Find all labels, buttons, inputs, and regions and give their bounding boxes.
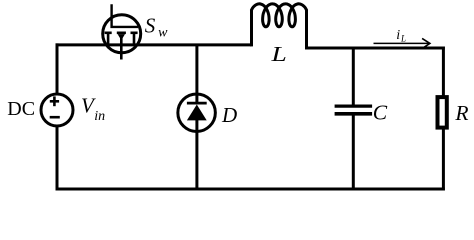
wire top-left segment [56, 43, 252, 46]
wire diode branch lower [195, 119, 198, 189]
transistor Sw right leg [133, 33, 136, 46]
svg-text:i: i [396, 28, 400, 43]
svg-text:DC: DC [7, 98, 35, 120]
transistor Sw gate lead and gate bar [112, 4, 138, 27]
transistor Sw MOSFET circle [103, 15, 141, 53]
inductor L coil [252, 4, 307, 27]
diode D circle [178, 94, 216, 132]
current arrow iL line [374, 42, 430, 44]
wire diode branch upper [195, 45, 198, 103]
inductor L left riser [250, 10, 253, 46]
wire bottom rail [56, 188, 445, 191]
svg-text:R: R [454, 101, 468, 125]
source Vin circle [41, 94, 73, 126]
wire left vertical upper [56, 43, 59, 94]
capacitor C bottom plate [335, 112, 373, 116]
wire top-right segment [307, 47, 445, 50]
diode D triangle (points up) [187, 105, 207, 121]
svg-text:C: C [373, 101, 388, 125]
svg-text:in: in [94, 109, 105, 124]
wire capacitor branch lower [352, 115, 355, 190]
wire right vertical upper [442, 47, 445, 97]
svg-text:D: D [221, 103, 237, 127]
transistor Sw middle contact bar [117, 31, 126, 34]
source minus sign [50, 116, 60, 119]
wire left vertical lower [56, 126, 59, 191]
transistor Sw left leg [107, 33, 110, 46]
wire right vertical lower [442, 129, 445, 191]
wire capacitor branch upper [352, 48, 355, 106]
svg-text:L: L [400, 34, 406, 44]
transistor Sw right contact bar [131, 31, 138, 34]
inductor L right riser [305, 10, 308, 50]
diode D cathode bar [187, 102, 207, 105]
current arrow iL head [422, 38, 430, 47]
source plus sign [50, 100, 59, 103]
transistor Sw body stem [120, 36, 123, 60]
resistor R box [438, 97, 447, 128]
svg-text:S: S [145, 14, 156, 38]
capacitor C top plate [335, 104, 373, 107]
svg-text:w: w [158, 25, 168, 40]
svg-text:L: L [270, 43, 286, 67]
transistor Sw left contact bar [105, 31, 112, 34]
transistor Sw body arrow (points down) [118, 34, 125, 40]
